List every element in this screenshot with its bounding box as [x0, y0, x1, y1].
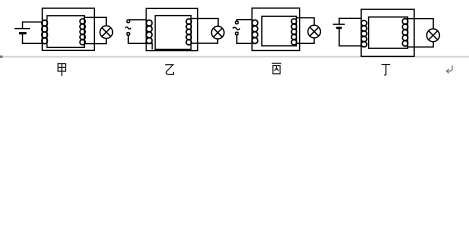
wire T3 secondary top to lamp 3: [296, 18, 314, 26]
pilcrow return mark: [446, 65, 452, 73]
wire AC2 top to transformer: [129, 19, 146, 21]
transformer T3 primary coil: [252, 20, 258, 44]
wire T4 secondary bottom to lamp 4: [408, 42, 434, 47]
AC source 3 tilde: [233, 27, 240, 29]
wire AC3 top to transformer: [237, 20, 252, 22]
wire T3 secondary bottom to lamp 3: [296, 38, 314, 44]
wire battery4 top: [339, 18, 361, 24]
label yi: [165, 65, 173, 75]
transformer T4 core inner: [369, 17, 408, 48]
wire battery1 bottom: [23, 33, 43, 43]
battery G4 short plate: [336, 27, 342, 29]
transformer T4 primary coil: [361, 20, 367, 46]
gray rule left end cap: [0, 56, 3, 58]
transformer T1 primary coil: [42, 20, 48, 44]
AC source 3 terminal top: [235, 21, 238, 24]
AC source 3 terminal bottom: [235, 32, 238, 35]
transformer T2 primary coil: [146, 20, 152, 44]
transformer T4 secondary coil: [402, 19, 407, 47]
AC source 2 tilde: [125, 27, 131, 29]
battery G1 long plate: [15, 28, 31, 30]
wire T4 secondary top to lamp 4: [408, 19, 434, 30]
lamp L4: [427, 29, 440, 42]
battery G4 long plate: [333, 23, 345, 25]
lamp L1: [100, 26, 113, 39]
transformer T3 core outer: [252, 8, 300, 50]
wire battery1 top: [23, 22, 43, 29]
transformer T3 core inner: [262, 16, 297, 46]
label ding: [382, 65, 391, 76]
label jia: [58, 64, 66, 76]
wire T2 secondary top to lamp 2: [191, 19, 218, 27]
wire T2 secondary bottom to lamp 2: [191, 39, 218, 43]
gray rule: [0, 56, 469, 58]
transformer T1 core outer: [42, 8, 94, 50]
transformer T2 secondary coil: [186, 19, 191, 45]
battery G1 short plate: [19, 32, 27, 34]
wire AC3 bottom to transformer: [237, 35, 252, 44]
transformer T4 core outer: [361, 9, 414, 56]
wire T1 secondary bottom to lamp: [84, 38, 106, 43]
transformer T3 secondary coil: [291, 19, 296, 45]
transformer T1 core inner: [47, 16, 84, 48]
transformer T2 core inner: [155, 16, 191, 50]
lamp L3: [308, 25, 321, 38]
lamp L2: [212, 26, 225, 39]
wire AC2 bottom to transformer with inner-leg stub: [128, 35, 152, 49]
label bing: [272, 63, 281, 73]
wire T1 secondary top to lamp: [84, 17, 106, 26]
AC source 2 terminal top: [127, 20, 130, 23]
AC source 2 terminal bottom: [127, 33, 130, 36]
transformer T1 secondary coil: [80, 19, 85, 45]
transformer T2 core outer: [146, 8, 197, 50]
wire battery4 bottom: [339, 28, 361, 46]
